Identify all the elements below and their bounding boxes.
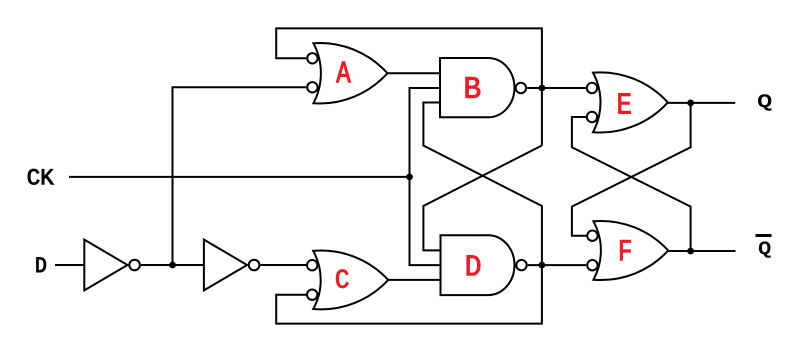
label D bbox=[467, 255, 480, 275]
node E output junction bbox=[687, 100, 694, 107]
label Q-bar overline bbox=[756, 234, 772, 237]
wire NOT-D up to gate A lower input bbox=[173, 87, 307, 265]
inverter U2 bbox=[204, 240, 247, 291]
or-gate C bbox=[313, 251, 388, 310]
gate C input bubble 2 bbox=[307, 290, 317, 300]
gate F input bubble 1 bbox=[587, 231, 597, 241]
node D output junction bbox=[539, 262, 546, 269]
node CK junction bbox=[406, 174, 413, 181]
node NOT-D junction bbox=[169, 262, 176, 269]
wire inverter U2 to gate C upper input bbox=[260, 264, 306, 266]
node B output junction bbox=[539, 85, 546, 92]
label C bbox=[336, 270, 348, 288]
gate E input bubble 2 bbox=[587, 112, 597, 122]
gate E input bubble 1 bbox=[587, 83, 597, 93]
wire gate F output Q-bar line bbox=[668, 250, 735, 252]
label F bbox=[620, 240, 630, 260]
gate D output bubble bbox=[516, 260, 526, 270]
gate A input bubble 2 bbox=[307, 82, 317, 92]
wire CK vertical to gate B pin 2 and gate D pin 2 bbox=[410, 88, 441, 265]
gate C input bubble 1 bbox=[307, 260, 317, 270]
or-gate F bbox=[593, 221, 668, 280]
node F output junction bbox=[687, 248, 694, 255]
wire CK input line bbox=[69, 176, 410, 178]
gate F input bubble 2 bbox=[587, 260, 597, 270]
label E bbox=[619, 93, 631, 113]
wire gate C output to gate D pin 3 bbox=[388, 279, 440, 281]
label CK bbox=[28, 169, 54, 185]
label B bbox=[466, 77, 481, 98]
wire cross-coupling: B bottom input from D output (X left) bbox=[423, 103, 542, 266]
wire inverter U1 to inverter U2 (node NOT-D) bbox=[141, 264, 204, 266]
wire cross-coupling: E lower input from F output (X2 left) bbox=[572, 117, 691, 251]
gate B output bubble bbox=[516, 83, 526, 93]
wire gate D output to gate F lower input bbox=[528, 264, 587, 266]
wire gate B output to gate E upper input bbox=[527, 87, 586, 89]
or-gate E bbox=[593, 72, 668, 132]
wire feedback B output to gate A upper input (top loop) bbox=[276, 28, 542, 145]
wire cross-coupling: F upper input from E output (X2 right) bbox=[572, 103, 691, 236]
gate A input bubble 1 bbox=[307, 53, 317, 63]
or-gate A bbox=[313, 43, 387, 104]
inverter U1 output bubble bbox=[129, 260, 140, 271]
inverter U1 bbox=[84, 240, 127, 291]
label Q-bar output bbox=[759, 242, 770, 258]
label D input bbox=[37, 257, 46, 272]
label A bbox=[336, 62, 350, 83]
wire D input line bbox=[55, 264, 84, 266]
wire feedback D output to gate C lower input (bottom loop) bbox=[276, 265, 542, 324]
nand-gate D bbox=[441, 235, 515, 295]
wire gate E output Q line bbox=[668, 102, 735, 104]
nand-gate B bbox=[440, 58, 515, 117]
wire cross-coupling: D top input from B output (X right) bbox=[423, 146, 542, 251]
label Q output bbox=[758, 95, 771, 111]
wire gate A output to gate B pin 1 bbox=[387, 72, 440, 74]
inverter U2 output bubble bbox=[249, 260, 260, 271]
